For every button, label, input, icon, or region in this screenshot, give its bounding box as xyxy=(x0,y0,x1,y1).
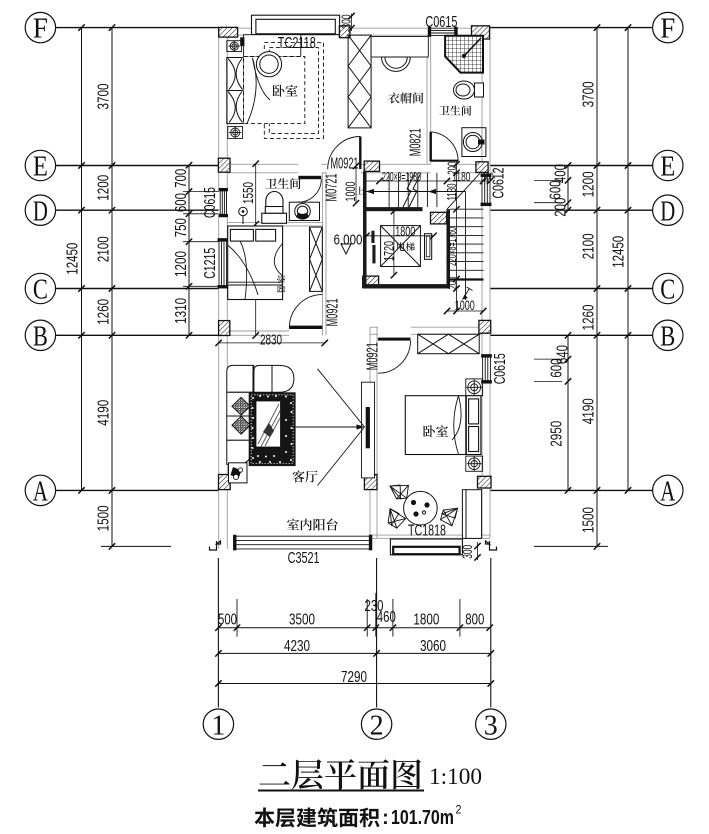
elevator dim 1800 ticks xyxy=(363,233,436,239)
column A3 xyxy=(478,476,492,488)
stair dim ticks 1000 bottom xyxy=(444,308,487,314)
elevator dim 1720 line xyxy=(393,211,395,275)
wall row E face xyxy=(322,172,328,174)
wall row E face xyxy=(458,172,482,174)
grid bubble F right xyxy=(653,12,683,42)
elevator door right xyxy=(425,234,432,260)
bay dim 300 ticks xyxy=(348,13,354,32)
svg-text:200: 200 xyxy=(445,277,460,290)
grid line A left xyxy=(56,489,219,491)
door M0821 leaf xyxy=(430,132,432,161)
svg-text:C: C xyxy=(660,275,675,306)
wall row B left face xyxy=(227,334,289,336)
bedroom1 blanket curve xyxy=(247,58,270,124)
dim ticks right near bottom xyxy=(565,332,571,494)
svg-text:400: 400 xyxy=(552,164,569,183)
grid bubble E left xyxy=(25,150,55,180)
bedroom1 cabinet post xyxy=(240,37,244,46)
dim stub right near xyxy=(534,179,562,181)
bedroom2 wardrobe xyxy=(310,227,323,291)
title underline xyxy=(258,790,424,792)
bathroom1 label xyxy=(439,105,471,115)
dim stub right near xyxy=(534,202,562,204)
dim line left near xyxy=(188,165,190,335)
svg-text:3700: 3700 xyxy=(95,83,112,109)
grid line F left xyxy=(56,27,219,29)
grid bubble D right xyxy=(653,195,683,225)
wall row E face xyxy=(458,163,482,165)
dim stub right near xyxy=(534,380,562,382)
dim ticks bottom row2 xyxy=(215,650,494,656)
wall right face xyxy=(489,381,491,539)
svg-text:1800: 1800 xyxy=(395,223,415,239)
bedroom3 table xyxy=(404,491,438,525)
svg-text:500: 500 xyxy=(218,611,237,628)
svg-text::: : xyxy=(382,807,389,829)
svg-text:1200: 1200 xyxy=(580,171,597,197)
svg-text:M0821: M0821 xyxy=(407,128,424,156)
svg-text:1: 1 xyxy=(211,710,225,741)
wall hall west face xyxy=(322,173,324,335)
grid bubble B left xyxy=(25,320,55,350)
bedroom3 chair2 xyxy=(385,509,407,530)
elevator car xyxy=(381,226,421,267)
bedroom2 label xyxy=(277,275,285,292)
bedroom3 cabinet xyxy=(462,490,481,539)
svg-text:1550: 1550 xyxy=(240,182,257,204)
window C0615 top xyxy=(428,27,457,36)
grid bubble A right xyxy=(653,475,683,505)
bathroom1 shower xyxy=(445,36,483,73)
wall top face xyxy=(219,27,252,29)
svg-text:B: B xyxy=(660,321,675,352)
svg-text:700: 700 xyxy=(173,169,190,188)
svg-text:C: C xyxy=(33,275,48,306)
dim line bottom row3 xyxy=(218,683,490,685)
wall row B right face xyxy=(370,326,378,328)
area label xyxy=(255,807,380,827)
column B3 xyxy=(479,320,491,333)
dim line left segments xyxy=(111,28,113,547)
svg-text:4230: 4230 xyxy=(284,638,310,655)
cloakroom wardrobe xyxy=(348,35,371,128)
svg-text:1200: 1200 xyxy=(95,175,112,201)
wall right face xyxy=(489,28,491,176)
grid bubble B right xyxy=(653,320,683,350)
dim stub right near xyxy=(534,358,562,360)
svg-text:1200: 1200 xyxy=(173,251,190,277)
svg-text:600: 600 xyxy=(548,359,565,378)
svg-text:M0721: M0721 xyxy=(323,173,340,201)
wall cloakroom right face xyxy=(430,35,432,164)
dim line left overall xyxy=(81,28,83,491)
wall top face xyxy=(340,34,431,36)
stair down arrow xyxy=(463,289,470,300)
stair direction line v xyxy=(465,192,467,301)
grid line B left xyxy=(56,334,219,336)
dim ticks bottom row3 xyxy=(215,680,494,686)
grid line A right xyxy=(490,489,653,491)
dim stub bottom xyxy=(392,599,394,637)
column E1 xyxy=(218,158,230,172)
wall left face xyxy=(218,214,220,241)
door M0921 top arc xyxy=(328,137,361,170)
title second floor plan xyxy=(259,759,420,789)
wall left face xyxy=(218,28,220,191)
svg-text:300: 300 xyxy=(338,15,353,29)
bedroom1 region dashed inner xyxy=(269,48,318,134)
dim stub 1500 right xyxy=(534,545,608,547)
dim stub bottom 230 xyxy=(375,593,377,637)
bathroom1 basin xyxy=(462,128,486,157)
svg-text:1000: 1000 xyxy=(342,181,358,201)
grid line E left xyxy=(56,165,219,167)
door M0921 br arc xyxy=(378,341,411,374)
tv sight diag down xyxy=(318,427,365,486)
stair dim line top xyxy=(366,180,490,182)
bedroom1 lamp top xyxy=(227,41,242,52)
column E3 xyxy=(476,162,488,173)
column F3 xyxy=(472,26,490,39)
svg-text:460: 460 xyxy=(377,609,396,626)
svg-text:TC1818: TC1818 xyxy=(408,523,446,540)
svg-text:750: 750 xyxy=(173,218,190,237)
bedroom2 bed xyxy=(228,226,283,300)
bathroom2 toilet xyxy=(262,191,287,223)
grid line 3 xyxy=(490,558,492,707)
dim ticks left near xyxy=(186,162,192,339)
dim line right segments xyxy=(596,28,598,547)
wall left face xyxy=(218,286,220,550)
svg-text:B: B xyxy=(33,321,48,352)
svg-text:220×9=1980: 220×9=1980 xyxy=(382,169,421,184)
elevator label xyxy=(397,242,415,251)
wall row E face xyxy=(361,163,431,165)
door M0921 br leaf xyxy=(378,338,411,341)
dim stub bottom xyxy=(366,599,368,637)
living tv panel xyxy=(362,382,375,478)
svg-text:1800: 1800 xyxy=(413,611,439,628)
svg-text:200: 200 xyxy=(552,198,569,217)
grid bubble C left xyxy=(25,273,55,303)
tv sight arrowhead xyxy=(357,424,365,429)
elevator door left xyxy=(371,231,374,243)
svg-text:4190: 4190 xyxy=(580,398,597,424)
dim stub left near xyxy=(183,285,219,287)
bedroom1 label xyxy=(273,85,298,97)
dim stub left near xyxy=(183,213,219,215)
dim stub bottom xyxy=(459,599,461,637)
svg-text:1500: 1500 xyxy=(95,505,112,531)
grid line E right xyxy=(490,165,653,167)
wall bath2 bottom face xyxy=(227,225,322,227)
wall row E face xyxy=(227,163,298,165)
svg-text:A: A xyxy=(33,477,49,508)
svg-text:2950: 2950 xyxy=(548,421,565,447)
dim ticks right overall xyxy=(625,24,631,493)
svg-text:12450: 12450 xyxy=(610,236,627,268)
interior dim line vertical xyxy=(255,164,257,336)
grid bubble D left xyxy=(25,195,55,225)
svg-text:220×8=1760: 220×8=1760 xyxy=(444,227,459,266)
svg-text:C0615: C0615 xyxy=(492,353,509,384)
bedroom3 chair3 xyxy=(440,507,458,526)
wall row B right face xyxy=(411,326,482,328)
column C2 shaft xyxy=(363,276,379,288)
svg-text:D: D xyxy=(660,196,675,227)
bathroom1 toilet xyxy=(454,81,484,99)
stair arrow 2 xyxy=(428,189,436,194)
grid line D right xyxy=(490,209,653,211)
bedroom3 wardrobe xyxy=(418,334,480,354)
hall dim ticks xyxy=(353,163,359,207)
cloakroom label xyxy=(388,92,423,103)
dim ticks left overall xyxy=(78,24,84,493)
living plant1 xyxy=(232,397,250,415)
svg-text:1310: 1310 xyxy=(173,298,190,324)
stair winder diagonal xyxy=(447,173,480,209)
hall dim line 1000 xyxy=(355,166,357,203)
window C1215 left xyxy=(218,239,228,288)
column F1 xyxy=(219,27,238,37)
dim 300 br ticks xyxy=(474,543,480,561)
grid bubble E right xyxy=(653,150,683,180)
balcony hook right xyxy=(486,541,497,550)
wall top face xyxy=(340,27,431,29)
svg-text:3500: 3500 xyxy=(289,611,315,628)
cloakroom basin xyxy=(382,57,411,71)
svg-text:2100: 2100 xyxy=(580,233,597,259)
column E2 xyxy=(364,161,379,171)
svg-text:7290: 7290 xyxy=(341,669,367,686)
dim stub left near xyxy=(183,241,219,243)
bedroom1 lamp bottom xyxy=(228,127,243,139)
svg-text:3700: 3700 xyxy=(580,81,597,107)
svg-text:100: 100 xyxy=(483,171,494,183)
column stair mid xyxy=(431,212,447,224)
stair dim line 1000 bottom xyxy=(447,310,483,312)
wall bath2 bottom face xyxy=(227,221,322,223)
grid line 1 xyxy=(217,558,219,707)
svg-text:12450: 12450 xyxy=(64,243,81,275)
stair break line 2 xyxy=(409,173,421,207)
dim line bottom row1 xyxy=(218,627,490,629)
elevator shaft walls xyxy=(363,171,450,288)
svg-text:TC2118: TC2118 xyxy=(278,35,316,52)
grid line B right xyxy=(490,334,653,336)
wall bottom face bedroom xyxy=(370,534,490,536)
wall right face xyxy=(489,203,491,357)
window C0615 left xyxy=(219,188,227,216)
door M0921 top leaf xyxy=(359,137,361,170)
grid line C right xyxy=(490,288,653,290)
bay window TC2118 xyxy=(252,15,340,34)
svg-text:1:100: 1:100 xyxy=(429,764,482,789)
bedroom1 cabinet top xyxy=(244,35,301,57)
wall right face xyxy=(481,203,483,357)
svg-text:C1215: C1215 xyxy=(202,248,219,279)
wall row E face xyxy=(361,172,431,174)
elevator dim 1800 line xyxy=(367,235,434,237)
svg-text:1720: 1720 xyxy=(381,241,397,261)
elevator dim 1720 ticks xyxy=(391,208,397,278)
wall left face xyxy=(226,28,228,191)
grid line D left xyxy=(56,209,219,211)
grid bubble 2 xyxy=(361,709,391,739)
tv sight diag up xyxy=(318,369,365,427)
cloakroom counter xyxy=(371,37,428,58)
balcony hook left xyxy=(210,541,221,550)
dim line bottom row2 xyxy=(218,652,490,654)
grid line F right xyxy=(490,27,653,29)
svg-text:200: 200 xyxy=(445,162,460,175)
svg-text:300: 300 xyxy=(459,545,475,559)
svg-text:2: 2 xyxy=(370,710,384,741)
door M0921 ml arc xyxy=(289,295,322,328)
dim line right near top xyxy=(567,166,569,211)
bedroom1 bed dashed xyxy=(244,57,305,124)
door M0721 leaf xyxy=(298,176,321,179)
wall row B right face xyxy=(370,333,378,335)
svg-text:2: 2 xyxy=(456,802,462,816)
svg-text:M0921: M0921 xyxy=(331,155,359,172)
tv sight line h xyxy=(296,426,362,428)
svg-text:F: F xyxy=(660,14,675,45)
wall row B left face xyxy=(227,330,289,332)
bedroom3 nightstand top xyxy=(466,379,483,396)
level triangle xyxy=(341,244,351,254)
svg-text:4190: 4190 xyxy=(95,400,112,426)
grid bubble F left xyxy=(25,12,55,42)
svg-text:E: E xyxy=(33,152,48,183)
dim line right near bottom xyxy=(567,335,569,490)
svg-text:C0615: C0615 xyxy=(425,14,457,31)
wall bottom face bedroom xyxy=(370,537,490,539)
window C0615 right lower xyxy=(482,355,492,384)
grid line 2 xyxy=(376,558,378,707)
balcony label xyxy=(287,519,337,531)
bedroom3 chair1 xyxy=(390,481,412,501)
wall top face xyxy=(455,27,490,29)
bedroom1 wardrobe xyxy=(227,58,244,124)
svg-text:F: F xyxy=(33,14,48,45)
column A2 xyxy=(364,475,377,490)
svg-text:E: E xyxy=(660,152,675,183)
wall right face xyxy=(481,381,483,539)
door M0821 arc xyxy=(431,132,458,161)
window C3521 bottom xyxy=(234,535,372,550)
stair right run bottom edge xyxy=(450,278,484,280)
svg-text:800: 800 xyxy=(465,611,484,628)
window C0612 right xyxy=(481,174,491,206)
stair direction line h xyxy=(366,191,466,193)
wall right face xyxy=(481,28,483,176)
svg-text:600: 600 xyxy=(547,180,564,199)
stair up label xyxy=(356,187,364,195)
column B1 xyxy=(219,321,230,336)
wall hall west face xyxy=(325,173,327,335)
wall top face xyxy=(219,34,252,36)
window TC1818 bottom xyxy=(390,539,462,555)
svg-text:D: D xyxy=(33,196,48,227)
stair break line xyxy=(403,173,415,207)
interior dim 2830 line xyxy=(219,342,325,344)
dim ticks left segments xyxy=(109,24,115,549)
interior dim 2830 ticks xyxy=(215,340,328,346)
bathroom2 washer xyxy=(289,202,319,220)
bedroom3 nightstand bottom xyxy=(466,456,483,471)
wall living-bedroom face xyxy=(376,327,378,538)
living corner table xyxy=(229,463,248,483)
bathroom2 label xyxy=(266,178,301,189)
living sofa xyxy=(227,365,294,464)
dim stub bottom xyxy=(236,599,238,637)
svg-text:1260: 1260 xyxy=(95,299,112,325)
stair dim line right xyxy=(456,160,458,311)
bay dim 300 line xyxy=(351,14,353,32)
door M0921 ml leaf xyxy=(289,326,322,329)
svg-text:3060: 3060 xyxy=(420,638,446,655)
grid bubble A left xyxy=(25,475,55,505)
wall cloakroom right face xyxy=(426,35,428,164)
dim ticks right segments xyxy=(594,24,600,549)
wall row B right face xyxy=(411,333,482,335)
svg-text:2830: 2830 xyxy=(260,331,282,348)
dim stub left near xyxy=(183,191,219,193)
svg-text:1130: 1130 xyxy=(444,184,459,201)
svg-text:6.000: 6.000 xyxy=(334,232,363,249)
svg-text:101.70m: 101.70m xyxy=(391,807,454,829)
bedroom3 bed xyxy=(405,396,481,455)
dim ticks bottom row1 xyxy=(215,625,493,631)
svg-text:M0921: M0921 xyxy=(365,342,382,370)
dim stub 1500 left xyxy=(101,545,171,547)
wall row E face xyxy=(227,172,298,174)
svg-text:1500: 1500 xyxy=(580,507,597,533)
grid bubble 3 xyxy=(476,709,506,739)
wall left face xyxy=(226,214,228,241)
dim line right overall xyxy=(627,28,629,491)
stair dim ticks top xyxy=(376,178,493,184)
svg-text:M0921: M0921 xyxy=(324,298,341,326)
wall living-bedroom face xyxy=(369,327,371,538)
stair arrow 1 xyxy=(366,189,374,194)
bedroom1 region dashed xyxy=(264,43,323,139)
grid bubble C right xyxy=(653,273,683,303)
wall row E face xyxy=(322,163,328,165)
wall top face xyxy=(455,34,490,36)
grid line C left xyxy=(56,288,219,290)
svg-text:C3521: C3521 xyxy=(288,550,320,567)
living plant2 xyxy=(232,416,250,434)
svg-text:C0615: C0615 xyxy=(202,187,219,218)
svg-text:600: 600 xyxy=(173,193,190,212)
grid bubble 1 xyxy=(203,709,233,739)
bedroom3 label xyxy=(423,425,448,437)
interior dim ticks xyxy=(253,161,259,339)
column A1 xyxy=(219,475,231,490)
wall left face xyxy=(226,286,228,550)
stair dim ticks right xyxy=(453,161,459,314)
dim ticks right near top xyxy=(565,162,571,213)
column F2 xyxy=(339,26,350,38)
bedroom1 pillow round xyxy=(256,52,281,77)
svg-text:A: A xyxy=(660,477,676,508)
door M0721 arc xyxy=(298,179,321,202)
dim 300 br line xyxy=(477,542,479,560)
svg-text:1000: 1000 xyxy=(455,297,475,313)
door M0821 sill xyxy=(431,160,458,162)
